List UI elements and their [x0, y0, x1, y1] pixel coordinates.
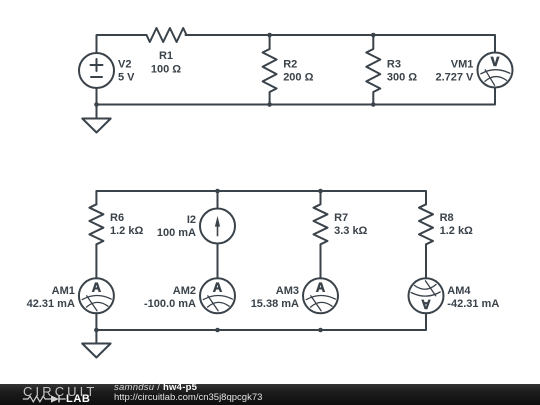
resistor R3	[366, 35, 380, 104]
wire: top rail of upper circuit	[97, 35, 147, 53]
node: top rail dots (lower)	[215, 189, 220, 194]
svg-text:AM4: AM4	[447, 285, 471, 297]
footer text	[114, 382, 197, 393]
wire: top rail of lower circuit	[96, 191, 426, 204]
ammeter AM1	[79, 278, 114, 313]
footer bar	[0, 384, 540, 405]
svg-text:1.2 kΩ: 1.2 kΩ	[440, 225, 473, 237]
letter V in VM1	[490, 57, 499, 67]
resistor R2	[263, 35, 277, 104]
resistor R6	[89, 204, 103, 278]
svg-text:R3: R3	[387, 59, 401, 71]
svg-text:-100.0 mA: -100.0 mA	[144, 298, 196, 310]
svg-text:AM1: AM1	[52, 285, 75, 297]
node: top rail dots (upper)	[267, 33, 272, 38]
ammeter AM3	[303, 278, 338, 313]
letter A in AM2	[213, 282, 222, 292]
svg-text:300 Ω: 300 Ω	[387, 72, 417, 84]
svg-text:3.3 kΩ: 3.3 kΩ	[334, 225, 367, 237]
svg-text:100 Ω: 100 Ω	[151, 63, 181, 75]
ground (lower circuit)	[95, 330, 97, 344]
arrow of current source I2	[215, 216, 220, 227]
current source I2	[217, 191, 219, 209]
logo CIRCUIT	[23, 384, 97, 399]
wire: bottom rail of lower circuit	[96, 313, 426, 330]
svg-text:R1: R1	[159, 50, 173, 62]
svg-text:100 mA: 100 mA	[157, 227, 196, 239]
letter A in AM4 (upside down)	[421, 300, 430, 310]
voltmeter VM1	[478, 53, 513, 88]
svg-text:AM3: AM3	[276, 285, 299, 297]
resistor R7	[314, 191, 328, 278]
svg-text:5 V: 5 V	[118, 72, 135, 84]
voltage source V2	[79, 53, 114, 88]
svg-text:200 Ω: 200 Ω	[283, 72, 313, 84]
svg-text:AM2: AM2	[173, 285, 196, 297]
svg-text:2.727 V: 2.727 V	[435, 72, 474, 84]
svg-text:I2: I2	[187, 214, 196, 226]
svg-text:VM1: VM1	[451, 59, 474, 71]
ammeter AM2	[200, 278, 235, 313]
svg-text:R2: R2	[283, 59, 297, 71]
meter letter glyphs	[92, 57, 500, 310]
ammeter AM4 (rotated 180)	[409, 278, 444, 313]
logo schematic glyph	[22, 394, 68, 404]
svg-text:42.31 mA: 42.31 mA	[27, 298, 75, 310]
svg-text:V2: V2	[118, 59, 131, 71]
letter A in AM3	[316, 282, 325, 292]
svg-text:-42.31 mA: -42.31 mA	[447, 298, 499, 310]
letter A in AM1	[92, 282, 101, 292]
resistor R8	[419, 204, 433, 278]
svg-text:R6: R6	[110, 212, 124, 224]
ground (upper circuit)	[96, 105, 98, 119]
resistor R1	[147, 28, 187, 42]
wire: bottom rail of upper circuit	[97, 88, 496, 105]
svg-text:R7: R7	[334, 212, 348, 224]
svg-text:15.38 mA: 15.38 mA	[251, 298, 299, 310]
node: bottom rail dots (upper)	[94, 102, 99, 107]
node: bottom rail dots (lower)	[94, 328, 99, 333]
svg-text:1.2 kΩ: 1.2 kΩ	[110, 225, 143, 237]
svg-text:R8: R8	[440, 212, 454, 224]
logo LAB	[66, 393, 90, 405]
